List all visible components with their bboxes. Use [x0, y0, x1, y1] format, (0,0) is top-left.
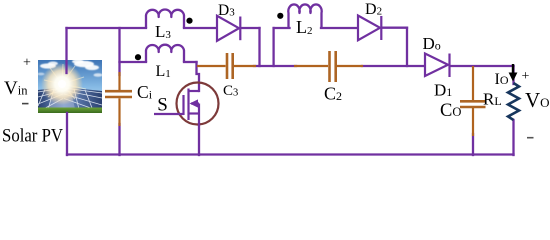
- svg-text:+: +: [522, 69, 530, 84]
- svg-text:+: +: [23, 56, 31, 71]
- svg-text:Solar PV: Solar PV: [2, 126, 63, 147]
- svg-text:IO: IO: [495, 71, 509, 88]
- svg-text:S: S: [157, 95, 168, 116]
